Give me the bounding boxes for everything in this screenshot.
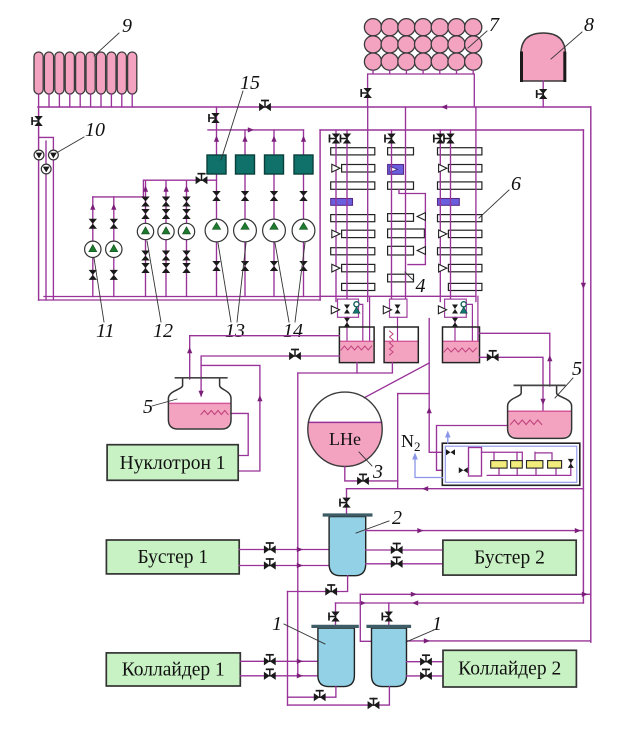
- wire suction manifold upper: [44, 296, 320, 298]
- pump 14 b: [292, 219, 315, 242]
- HX col3 rect r5: [438, 215, 482, 222]
- HX col3 rect r2: [448, 165, 482, 173]
- svg-text:5: 5: [143, 396, 153, 418]
- wire sphere junction down to nitrogen unit: [429, 363, 468, 452]
- arrow on L3: [248, 127, 254, 132]
- wire pump 12a column: [145, 180, 147, 296]
- wire compressor 3 line: [45, 141, 47, 300]
- wire subcooler1 center drop: [346, 317, 348, 352]
- HX col2 rect c4: [388, 214, 414, 222]
- svg-text:1: 1: [432, 613, 442, 635]
- label 6: [479, 173, 521, 218]
- wire subcooler1 right stems: [360, 304, 363, 345]
- wire LHe drop line: [397, 394, 399, 489]
- pump 14 a: [263, 219, 286, 242]
- wire left drop from L1 to compressors 10: [38, 107, 40, 300]
- wire right inner vertical x=583.4: [582, 130, 584, 603]
- label 8: [551, 14, 594, 59]
- svg-text:Нуклотрон 1: Нуклотрон 1: [120, 453, 226, 474]
- valve on lower nitrogen line: [459, 467, 468, 473]
- svg-text:4: 4: [416, 275, 426, 297]
- vessel 1a: [313, 626, 357, 686]
- valves below group 11 pumps: [89, 270, 97, 280]
- label 1 left: [272, 613, 325, 644]
- compressor 10 b: [49, 150, 59, 160]
- svg-text:Бустер 2: Бустер 2: [474, 548, 545, 569]
- HX col2 blue ejector c2: [388, 165, 404, 175]
- Booster 2 box: [443, 540, 576, 575]
- wire drain header V2: [287, 592, 289, 706]
- wire feed line of group 12: [143, 180, 216, 197]
- wire liquid feed 4a to 5L: [201, 356, 339, 396]
- wire diagonal feed to sphere: [364, 319, 429, 398]
- subcooler box 1: [338, 299, 359, 317]
- col3 check triangles: [439, 164, 447, 172]
- HX col2 rect c1: [388, 148, 414, 155]
- nitrogen feed blue line: [415, 457, 442, 478]
- HX col3 rect r1: [438, 148, 482, 155]
- svg-text:13: 13: [225, 320, 245, 342]
- svg-text:Бустер 1: Бустер 1: [137, 547, 208, 568]
- HX col1 rect r6: [342, 230, 375, 237]
- wire col3 right vertical: [475, 107, 477, 301]
- HX col2 rect c5: [388, 229, 425, 238]
- label 11: [94, 258, 115, 342]
- wire nuclotron return riser: [201, 365, 260, 471]
- label 3: [359, 452, 383, 483]
- wire branch to compressor 2: [39, 137, 54, 150]
- wire col1 left vertical: [335, 130, 337, 301]
- wire vessel2 to Booster2 return: [366, 563, 443, 565]
- valve on upper nitrogen line: [446, 449, 455, 455]
- wire gas return 5R to 4c: [480, 333, 550, 386]
- HX col1 blue unit r4: [331, 199, 353, 206]
- svg-text:2: 2: [392, 507, 402, 529]
- Collider 2 box: [443, 650, 576, 687]
- valve on L1: [259, 101, 271, 112]
- wire pump 11a column: [92, 197, 94, 297]
- valves below group 12 pumps: [141, 251, 149, 261]
- svg-text:10: 10: [85, 119, 105, 141]
- wire L2 left branch down to compressor manifold: [319, 130, 321, 300]
- wire pump 12b column: [165, 180, 167, 296]
- svg-text:1: 1: [272, 613, 282, 635]
- label 15: [221, 72, 260, 160]
- wire vessel1b drain: [288, 687, 390, 706]
- HX col3 rect r3: [438, 182, 482, 189]
- vessel 1b: [368, 626, 410, 686]
- wire Collider1 return: [240, 675, 318, 677]
- wire header line L3 over units 15: [208, 129, 304, 131]
- wire line y603: [336, 602, 584, 604]
- HX col2 rect c6: [388, 246, 414, 255]
- arrow on L1: [441, 104, 447, 109]
- wire nuclotron coil circuit: [230, 413, 248, 455]
- HX col2 rect c7: [388, 274, 414, 282]
- vessel 2: [324, 515, 371, 576]
- dewar 5R body: [508, 385, 572, 438]
- valves col3 top: [434, 134, 445, 144]
- svg-text:8: 8: [584, 14, 594, 36]
- wire pump 11b column: [113, 197, 115, 297]
- wire vessel1a drain: [288, 687, 336, 698]
- valve col2 top: [385, 134, 396, 144]
- valves below big pumps: [212, 261, 220, 271]
- valves below units 15: [212, 191, 220, 201]
- wire col2 right vertical: [405, 107, 407, 301]
- valve on liquid feed: [289, 350, 301, 361]
- HX col2 rect c3: [388, 182, 414, 189]
- valve between L1 and L3 on column 1: [209, 113, 220, 123]
- dewar 5L body: [168, 378, 231, 429]
- label 12: [147, 241, 173, 342]
- wire unit column 4: [303, 130, 305, 297]
- HX col1 rect r3: [331, 182, 375, 189]
- adsorber unit 15 c: [265, 155, 284, 174]
- label 9: [94, 15, 132, 56]
- HX col1 rect r9: [342, 283, 375, 290]
- wire col2 left vertical: [391, 130, 393, 301]
- wire col3 mid vertical: [450, 130, 452, 301]
- wire tank stems to L1: [39, 94, 133, 107]
- svg-text:12: 12: [153, 320, 173, 342]
- Collider 1 box: [106, 653, 240, 686]
- label 5 right: [555, 358, 582, 398]
- wire sphere bottom drain: [345, 466, 398, 481]
- wire col3 left vertical: [439, 130, 441, 301]
- wire HX bottom line: [320, 295, 476, 297]
- tank 8 dome: [521, 33, 566, 81]
- svg-text:6: 6: [511, 173, 521, 195]
- svg-text:11: 11: [96, 320, 115, 342]
- wire main header line L1 y=107: [38, 106, 591, 108]
- HX col3 rect r8: [448, 264, 482, 271]
- adsorber unit 15 b: [236, 155, 255, 174]
- subcooler box 3: [445, 299, 467, 317]
- svg-text:9: 9: [122, 15, 132, 37]
- valves above group 11 pumps: [89, 219, 97, 229]
- wire subcooler3 center drop: [454, 317, 456, 352]
- valve above vessel 2: [340, 498, 351, 508]
- HX col1 rect r2: [342, 165, 375, 173]
- wire vessel2 drain: [288, 576, 348, 592]
- compressor 10 c: [41, 164, 51, 174]
- HX col1 rect r8: [342, 264, 375, 271]
- wire vessel1b to Collider2 supply: [407, 661, 444, 663]
- wire main transfer header y488.7: [347, 488, 584, 490]
- Nuclotron 1 box: [107, 445, 238, 481]
- wire line y594: [360, 593, 591, 595]
- nitrogen unit outer box: [442, 443, 580, 485]
- valve below subcooler 1: [344, 318, 350, 327]
- wire vessel2 gas line y531: [366, 530, 584, 532]
- pump 11 a: [85, 241, 101, 257]
- wire Collider1 supply: [240, 660, 318, 662]
- wire suction manifold lower: [39, 299, 321, 301]
- wire gas return 5L to 4a: [190, 336, 340, 379]
- valve on 5R feed: [487, 351, 499, 362]
- HX col1 rect r7: [331, 248, 375, 255]
- cylinder pack 7: [364, 19, 481, 71]
- valve below L1 left: [32, 116, 43, 126]
- wire col1 right vertical: [367, 107, 369, 301]
- nitrogen subcooler column: [469, 448, 482, 477]
- pump 11 b: [106, 241, 122, 257]
- wire drop to vessel 2: [346, 489, 348, 514]
- pump 12 a: [137, 223, 153, 239]
- label 4: [405, 272, 426, 297]
- wire second header line L2 y=130: [320, 129, 583, 131]
- pump 12 b: [158, 223, 174, 239]
- col2 side check triangles: [417, 213, 425, 221]
- valves col1 top: [330, 134, 341, 144]
- wire liquid feed 4c to 5R: [480, 357, 544, 423]
- svg-text:LHe: LHe: [329, 429, 361, 449]
- arrow on right inner vertical: [581, 283, 586, 289]
- svg-text:Коллайдер 2: Коллайдер 2: [458, 659, 561, 680]
- label 5 left: [143, 396, 177, 418]
- wire unit column 1 from L1 to manifold: [216, 107, 218, 297]
- HX col1 rect r1: [331, 148, 375, 155]
- wire feed line of group 11: [93, 196, 144, 198]
- label 13: [218, 243, 246, 342]
- vessel 4c: [443, 327, 480, 363]
- label 1 right: [406, 613, 442, 642]
- wire unit column 3: [273, 130, 275, 297]
- wire between vessels drop: [360, 594, 371, 641]
- arrows group 11: [90, 204, 95, 210]
- wire vessel1a top stem: [335, 603, 337, 626]
- svg-text:3: 3: [372, 461, 383, 483]
- svg-text:Коллайдер 1: Коллайдер 1: [122, 660, 225, 681]
- HX col3 rect r9: [448, 283, 482, 290]
- vessel 4b: [384, 327, 418, 363]
- tank bank 9 capsules: [34, 52, 137, 94]
- svg-text:14: 14: [283, 320, 303, 342]
- wire cross link to LHe drop line: [398, 393, 430, 395]
- arrows above units 15: [214, 136, 219, 142]
- wire Booster1 return: [239, 565, 329, 567]
- LHe sphere: [308, 392, 382, 466]
- nitrogen vent blue arrow: [447, 435, 449, 443]
- HX col3 rect r7: [438, 248, 482, 255]
- wire vessel1b to Collider2 return: [407, 675, 444, 677]
- arrows group 12: [143, 186, 148, 192]
- wire pump 12c column: [186, 180, 188, 296]
- valve under tank 8: [537, 89, 548, 99]
- valve below subcooler 3: [452, 318, 458, 327]
- pump 13 b: [234, 219, 257, 242]
- valve under pack 7: [361, 88, 372, 98]
- adsorber unit 15 a: [207, 155, 226, 174]
- pump 13 a: [205, 219, 228, 242]
- wire west distribution riser V1: [297, 373, 299, 676]
- wire unit column 2: [244, 130, 246, 297]
- nitrogen unit inner jacket: [445, 446, 577, 482]
- nitrogen heaters: [482, 452, 574, 475]
- label 2: [356, 507, 402, 533]
- wire right outer vertical x=590.8: [590, 107, 592, 642]
- wire subcooler3 right stems: [466, 304, 472, 345]
- label 10: [58, 119, 105, 152]
- svg-text:5: 5: [572, 358, 582, 380]
- wire subcooler2 center drop: [397, 317, 399, 348]
- col1 check triangles: [332, 164, 340, 172]
- pump 12 c: [178, 223, 194, 239]
- valve on sphere drain: [357, 474, 369, 485]
- wire Booster1 supply: [239, 549, 329, 551]
- wire pack 7 stems and manifold: [368, 70, 475, 107]
- valves above group 12 pumps: [141, 197, 149, 207]
- adsorber unit 15 d: [294, 155, 313, 174]
- label 7: [468, 14, 500, 48]
- Booster 1 box: [106, 540, 239, 574]
- subcooler box 2: [390, 299, 408, 317]
- wire vessel 4b drain loop: [298, 363, 393, 373]
- valve on group 12 feed: [196, 174, 208, 185]
- wire compressor 2 down: [52, 160, 54, 300]
- wire col1 mid vertical: [346, 130, 348, 301]
- wire vessel 4a drain stem: [356, 363, 358, 373]
- label 14: [275, 243, 305, 342]
- compressor 10 a: [34, 150, 44, 160]
- svg-text:7: 7: [489, 14, 500, 36]
- HX col3 rect r6: [448, 230, 482, 237]
- wire line y642: [407, 640, 591, 642]
- HX col3 blue unit r4: [438, 199, 460, 206]
- wire vessel1b top stem: [388, 603, 390, 626]
- wire vessel2 to Booster2 supply: [366, 549, 443, 551]
- wire col2 side loop: [399, 189, 425, 264]
- wire 5R coil to nitrogen unit: [437, 426, 509, 471]
- vessel 4a: [339, 327, 374, 363]
- HX col1 rect r5: [331, 215, 375, 222]
- wire tank 8 stem: [542, 81, 544, 107]
